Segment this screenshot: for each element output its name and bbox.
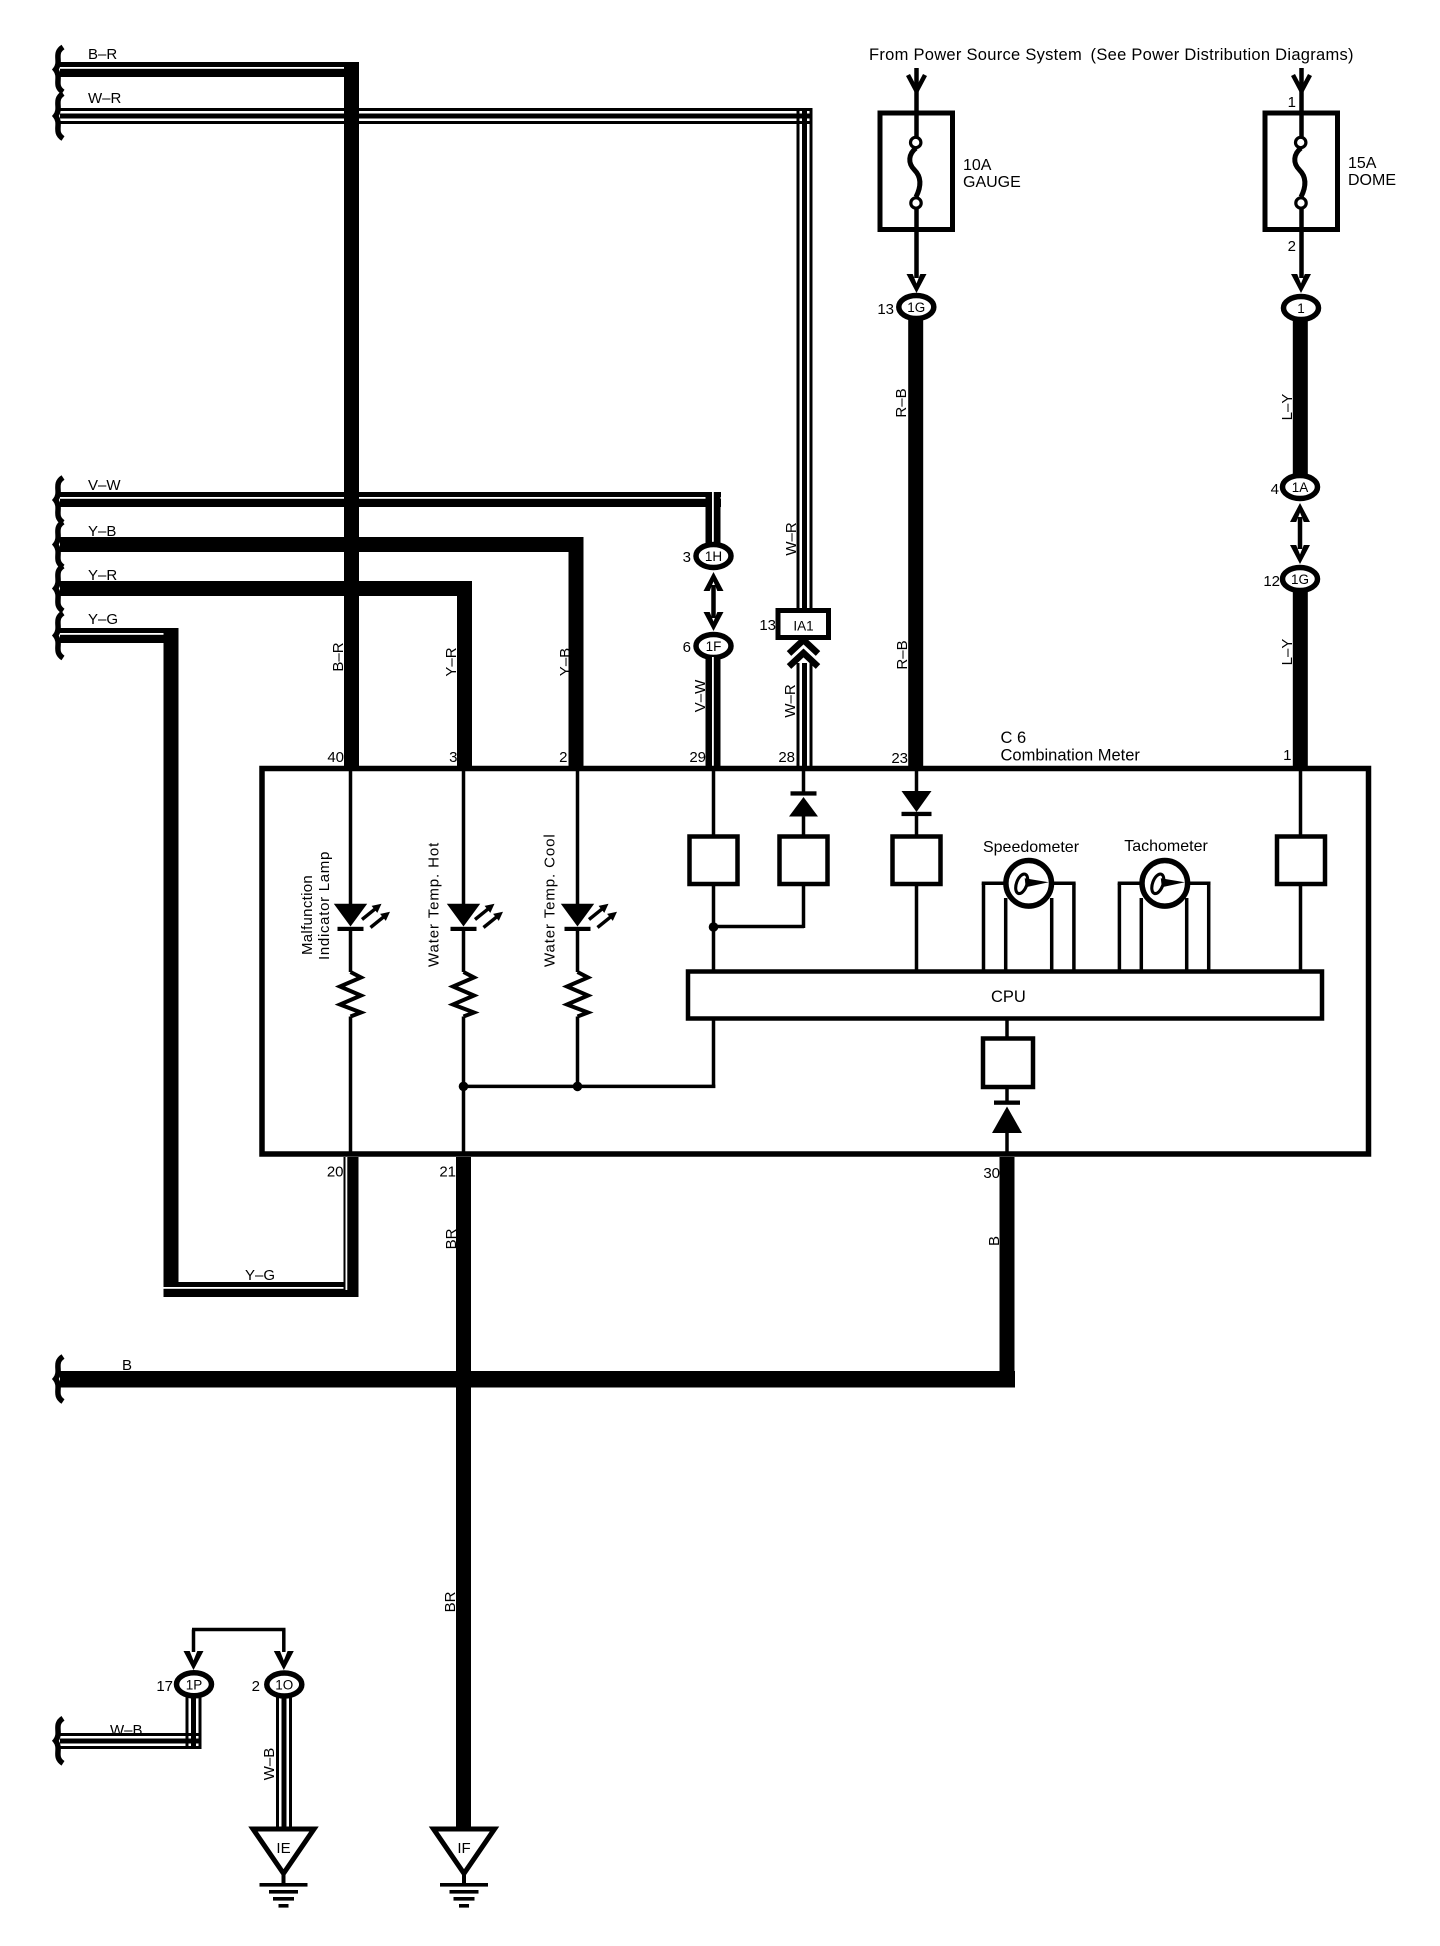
pin 1 dome label (1288, 94, 1296, 111)
wire CPU to block (1005, 1019, 1009, 1041)
connector 1A (1283, 476, 1318, 499)
wire between 1A and 1G (1298, 517, 1303, 549)
arrow into fuse 10A (908, 68, 925, 113)
block pin 1 (1277, 837, 1325, 885)
connector 1H arrow (704, 572, 724, 591)
label Y-R vertical (443, 647, 460, 676)
wire stub W-R (56, 94, 64, 139)
svg-text:IF: IF (457, 1840, 470, 1857)
pin 21 (439, 1164, 456, 1181)
wire LED to resistor malfunction (349, 931, 353, 972)
block pin 28 (780, 837, 828, 885)
wire stub B (56, 1357, 64, 1402)
wire stub Y-B (56, 522, 64, 567)
svg-text:Indicator Lamp: Indicator Lamp (316, 851, 333, 960)
connector 1 arrow (1291, 274, 1311, 293)
arrow into fuse 15A (1293, 68, 1310, 113)
pin 2 (559, 749, 567, 766)
svg-text:6: 6 (683, 639, 691, 656)
wire resistor to junction cool (576, 1017, 580, 1087)
wire W-R horizontal (60, 108, 812, 124)
svg-text:1O: 1O (275, 1678, 293, 1693)
label V-W (88, 477, 121, 494)
svg-text:23: 23 (891, 750, 908, 767)
connector 1G right (1283, 568, 1318, 591)
wire stub B-R (56, 47, 64, 92)
pin 28 (778, 749, 795, 766)
junction dot cool column (573, 1082, 583, 1092)
svg-text:21: 21 (439, 1164, 456, 1181)
block pin 29 (690, 837, 738, 885)
wire block to diode (1005, 1087, 1009, 1103)
svg-text:BR: BR (443, 1228, 460, 1249)
label B-R (88, 46, 117, 63)
svg-text:GAUGE: GAUGE (963, 174, 1021, 191)
wire pin28 to pin29 link (714, 884, 805, 928)
svg-text:Water Temp. Hot: Water Temp. Hot (426, 842, 443, 967)
svg-text:CPU: CPU (991, 988, 1026, 1006)
svg-text:1F: 1F (706, 639, 722, 654)
label BR upper (443, 1228, 460, 1249)
label V-W vertical (692, 679, 709, 712)
diode pin 28 (789, 791, 818, 838)
tachometer gauge (1142, 861, 1188, 907)
svg-text:Y–B: Y–B (557, 648, 574, 676)
label R-B lower (894, 640, 911, 669)
wire resistor to pin 21 (462, 1017, 466, 1155)
pin 13 IA1 label (759, 617, 776, 634)
wire B horizontal (60, 1371, 1015, 1388)
connector 1H (696, 545, 731, 568)
svg-text:IA1: IA1 (793, 619, 813, 634)
label 10A GAUGE (963, 157, 1021, 191)
fuse 10A GAUGE (880, 113, 953, 230)
svg-text:Speedometer: Speedometer (983, 839, 1080, 856)
pin 12 label (1263, 573, 1280, 590)
svg-text:40: 40 (327, 749, 344, 766)
svg-text:3: 3 (449, 749, 457, 766)
svg-text:W–R: W–R (782, 684, 799, 718)
svg-text:DOME: DOME (1348, 172, 1396, 189)
connector 1F (696, 635, 731, 658)
svg-text:17: 17 (156, 1678, 173, 1695)
label W-R above IA1 (783, 522, 800, 556)
svg-text:3: 3 (683, 549, 691, 566)
label W-R below IA1 (782, 684, 799, 718)
wire Y-B horizontal (60, 537, 584, 552)
svg-text:10A: 10A (963, 157, 992, 174)
wire pin 40 column (349, 770, 353, 904)
block pin 23 (893, 837, 941, 885)
pin 40 (327, 749, 344, 766)
label Water Temp Hot (426, 842, 443, 967)
pin 3 label (683, 549, 691, 566)
wire LED to resistor cool (576, 931, 580, 972)
label Tachometer (1124, 838, 1208, 855)
resistor water temp cool (567, 972, 588, 1017)
label Y-B vertical (557, 648, 574, 676)
wire pin 2 column (576, 770, 580, 904)
wire Y-G bottom horizontal (164, 1282, 359, 1297)
pin 2 dome label (1288, 238, 1296, 255)
svg-text:15A: 15A (1348, 155, 1377, 172)
junction wire to CPU (464, 1018, 716, 1088)
svg-text:1H: 1H (705, 549, 722, 564)
pin 29 (689, 749, 706, 766)
wire W-R vertical lower (797, 663, 813, 771)
pin 23 (891, 750, 908, 767)
wire Y-G to pin 20 (344, 1157, 359, 1290)
wire bridge 1P to 1O (192, 1630, 286, 1653)
wire pin 1 column lower (1299, 884, 1303, 972)
speedometer gauge (1006, 861, 1052, 907)
label BR lower (442, 1591, 459, 1612)
junction dot pin29 (709, 922, 719, 932)
label Combination Meter (1001, 747, 1141, 765)
svg-text:R–B: R–B (894, 640, 911, 669)
wire L-Y lower (1293, 590, 1308, 771)
svg-text:12: 12 (1263, 573, 1280, 590)
svg-text:From Power Source System (See: From Power Source System (See Power Dist… (869, 46, 1354, 64)
label Y-R (88, 567, 117, 584)
connector 1G arrow (907, 274, 927, 293)
combination meter box (262, 769, 1369, 1155)
wire R-B (908, 318, 923, 771)
svg-text:29: 29 (689, 749, 706, 766)
svg-text:L–Y: L–Y (1279, 639, 1296, 666)
connector 1G-12 arrow (1290, 545, 1310, 564)
svg-text:13: 13 (759, 617, 776, 634)
svg-text:W–R: W–R (783, 522, 800, 556)
label B-R vertical (330, 642, 347, 671)
svg-text:13: 13 (877, 301, 894, 318)
connector 1O arrow (274, 1651, 294, 1670)
connector 1F arrow (704, 612, 724, 631)
pin 39 (449, 749, 457, 766)
ground IE (253, 1829, 314, 1908)
svg-text:1: 1 (1283, 747, 1291, 764)
svg-text:L–Y: L–Y (1279, 394, 1296, 421)
wire stub W-B (56, 1718, 64, 1763)
wire pin 29 column upper (712, 770, 716, 838)
svg-text:B–R: B–R (330, 642, 347, 671)
pin 20 (327, 1164, 344, 1181)
pin 17 label (156, 1678, 173, 1695)
svg-text:B–R: B–R (88, 46, 117, 63)
LED water temp hot (447, 904, 503, 931)
wire pin 28 column upper (802, 770, 806, 792)
wire Y-G vertical (164, 628, 179, 1297)
label B (122, 1357, 132, 1374)
svg-text:2: 2 (559, 749, 567, 766)
svg-text:V–W: V–W (88, 477, 121, 494)
connector 1P (177, 1673, 212, 1696)
svg-text:B: B (986, 1236, 1003, 1246)
wire stub Y-G (56, 613, 64, 658)
pin 2 1O label (252, 1678, 260, 1695)
connector IA1 (778, 611, 829, 638)
wire pin 23 column upper (915, 770, 919, 792)
label L-Y upper (1279, 394, 1296, 421)
wire Y-B vertical (569, 537, 584, 771)
svg-text:1: 1 (1288, 94, 1296, 111)
connector 1O (267, 1673, 302, 1696)
CPU box (688, 972, 1322, 1019)
svg-text:W–B: W–B (110, 1722, 143, 1739)
svg-text:C 6: C 6 (1001, 729, 1027, 747)
block below CPU (983, 1039, 1033, 1088)
label W-B (110, 1722, 143, 1739)
label B pin30 (986, 1236, 1003, 1246)
fuse 15A DOME (1265, 113, 1338, 230)
svg-text:W–B: W–B (261, 1748, 278, 1781)
connector 1G (899, 296, 934, 319)
label L-Y lower (1279, 639, 1296, 666)
wire fuse to 1G (914, 230, 919, 279)
ground IF (434, 1829, 495, 1908)
wire 1P down (186, 1696, 202, 1749)
wire B-R vertical (344, 62, 359, 771)
LED water temp cool (561, 904, 617, 931)
wire pin 29 column lower (712, 884, 716, 972)
svg-text:2: 2 (1288, 238, 1296, 255)
wire between 1H and 1F (711, 585, 716, 618)
speedometer housing (982, 883, 1076, 971)
svg-text:Y–G: Y–G (88, 611, 118, 628)
LED malfunction indicator lamp (334, 904, 390, 931)
wire V-W horizontal (60, 492, 721, 507)
svg-text:Y–G: Y–G (245, 1267, 275, 1284)
pin 30 (983, 1165, 1000, 1182)
label From Power Source System (869, 46, 1354, 64)
wire LED to resistor hot (462, 931, 466, 972)
wire Y-R vertical (457, 581, 472, 771)
svg-text:Malfunction: Malfunction (299, 875, 316, 955)
label Y-G (88, 611, 118, 628)
svg-text:28: 28 (778, 749, 795, 766)
wire L-Y upper (1293, 319, 1308, 477)
wire 1O down W-B (276, 1697, 292, 1829)
wire stub V-W (56, 478, 64, 523)
wire resistor to pin 20 (349, 1017, 353, 1155)
label Y-B (88, 523, 116, 540)
svg-text:1: 1 (1297, 301, 1305, 316)
svg-text:Y–R: Y–R (443, 647, 460, 676)
wire Y-R horizontal (60, 581, 472, 596)
pin 4 label (1271, 481, 1279, 498)
IA1 arrows (789, 640, 818, 667)
label W-R (88, 90, 122, 107)
pin 6 label (683, 639, 691, 656)
wire BR (456, 1157, 471, 1829)
wire V-W vertical upper (706, 492, 721, 545)
svg-text:1A: 1A (1292, 480, 1309, 495)
svg-text:R–B: R–B (893, 388, 910, 417)
pin 13 label (877, 301, 894, 318)
connector 1 (1284, 297, 1319, 320)
label Y-G bottom (245, 1267, 275, 1284)
svg-text:1G: 1G (907, 300, 925, 315)
svg-text:Combination Meter: Combination Meter (1001, 747, 1141, 765)
label 15A DOME (1348, 155, 1396, 189)
label Water Temp Cool (542, 833, 559, 967)
wire pin 1 column upper (1299, 770, 1303, 838)
label R-B upper (893, 388, 910, 417)
resistor water temp hot (453, 972, 474, 1017)
svg-text:V–W: V–W (692, 679, 709, 712)
svg-text:IE: IE (276, 1840, 290, 1857)
wire V-W vertical lower (706, 657, 721, 771)
wire pin 39 column (462, 770, 466, 904)
wire stub Y-R (56, 566, 64, 611)
svg-text:Water Temp. Cool: Water Temp. Cool (542, 833, 559, 967)
label C 6 (1001, 729, 1027, 747)
svg-text:4: 4 (1271, 481, 1279, 498)
diode pin 23 (902, 791, 932, 838)
diode pin 30 (992, 1101, 1022, 1155)
wire W-B horizontal (60, 1733, 202, 1749)
tachometer housing (1118, 883, 1211, 971)
svg-text:Tachometer: Tachometer (1124, 838, 1208, 855)
label Speedometer (983, 839, 1080, 856)
svg-text:30: 30 (983, 1165, 1000, 1182)
svg-text:2: 2 (252, 1678, 260, 1695)
label W-B vertical (261, 1748, 278, 1781)
junction dot hot column (459, 1082, 469, 1092)
wire fuse to connector 1 (1299, 230, 1304, 279)
pin 1 (1283, 747, 1291, 764)
wire Y-G horizontal (60, 628, 179, 643)
svg-text:W–R: W–R (88, 90, 122, 107)
wire B-R horizontal (60, 62, 359, 77)
resistor malfunction (340, 972, 361, 1017)
wire B vertical to pin 30 (1000, 1157, 1015, 1387)
wire W-R vertical (797, 108, 813, 610)
label Malfunction Indicator Lamp (299, 851, 333, 960)
svg-text:20: 20 (327, 1164, 344, 1181)
svg-text:1P: 1P (186, 1677, 203, 1692)
svg-text:1G: 1G (1291, 572, 1309, 587)
svg-text:BR: BR (442, 1591, 459, 1612)
wire pin 23 column lower (915, 884, 919, 972)
connector 1A arrow (1290, 503, 1310, 522)
connector 1P arrow (184, 1651, 204, 1670)
